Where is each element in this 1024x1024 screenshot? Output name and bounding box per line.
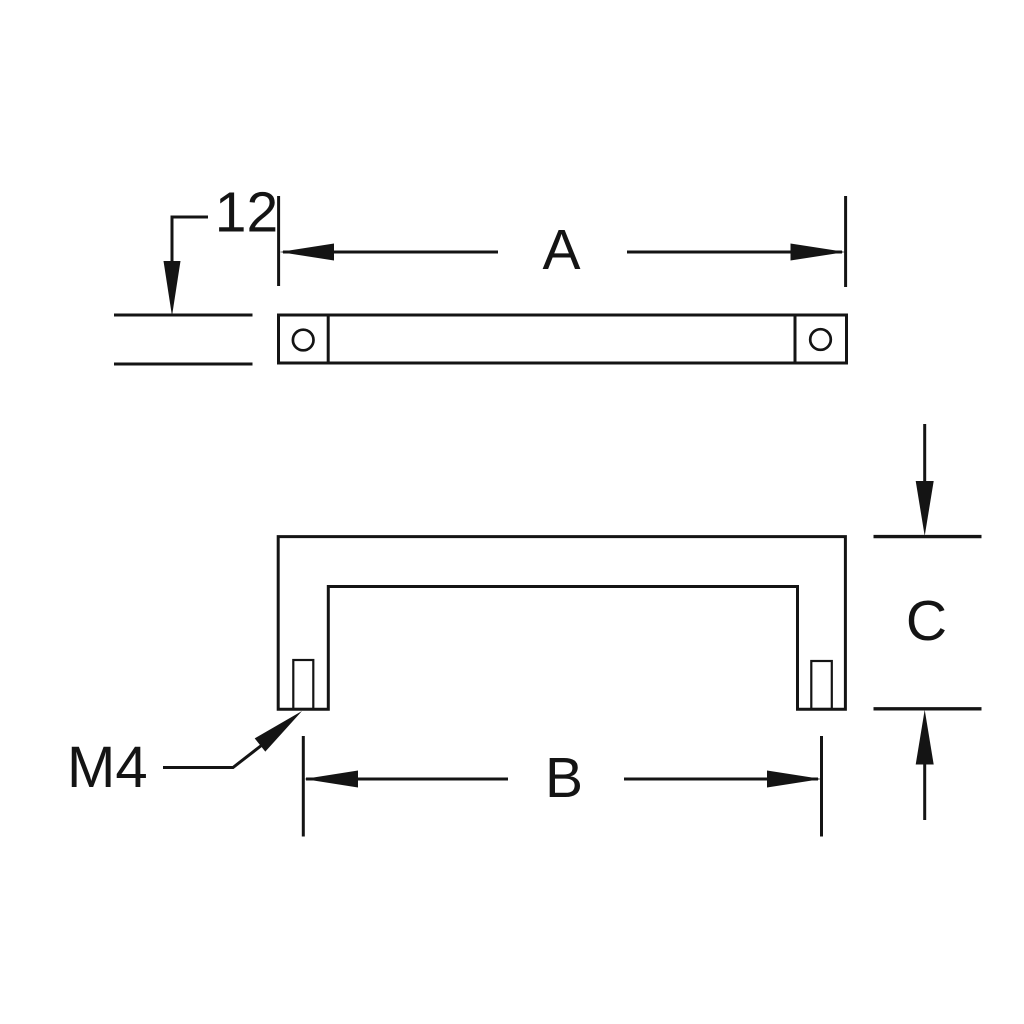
dimension line A right segment <box>627 251 842 254</box>
extension line right (B) <box>820 736 823 837</box>
C lower tick line <box>874 707 982 710</box>
svg-text:C: C <box>906 589 947 653</box>
C lower arrow lead line <box>923 764 926 820</box>
left end cap divider <box>327 315 330 363</box>
right end cap divider <box>794 315 797 363</box>
leader line from M4 label <box>163 745 262 768</box>
extension line left (A) <box>277 196 280 286</box>
panel break line upper (top view left) <box>114 314 253 317</box>
left screw boss M4 <box>293 660 313 709</box>
svg-text:M4: M4 <box>67 735 148 800</box>
C lower arrowhead pointing up <box>916 710 934 765</box>
dimension line B left segment <box>306 778 508 781</box>
svg-text:B: B <box>545 746 583 810</box>
left mounting hole <box>293 330 314 351</box>
svg-text:12: 12 <box>215 181 278 245</box>
svg-text:A: A <box>542 218 580 282</box>
handle bar outline (top view) <box>279 315 847 363</box>
panel break line lower (top view left) <box>114 363 253 366</box>
leader arrowhead pointing to left screw boss <box>255 711 302 752</box>
handle outline (front view) <box>278 537 845 710</box>
dimension line A left segment <box>283 251 498 254</box>
leader arrowhead pointing down to panel line <box>164 261 181 316</box>
right mounting hole <box>810 329 831 350</box>
right screw boss M4 <box>811 661 832 709</box>
leader line for 12 dimension <box>172 217 208 268</box>
extension line left (B) <box>302 736 305 837</box>
dimension arrowhead A left <box>280 244 335 261</box>
C upper arrow lead line <box>923 424 926 482</box>
extension line right (A) <box>844 196 847 287</box>
C upper arrowhead pointing down <box>916 481 934 536</box>
C upper tick line <box>874 535 982 538</box>
dimension arrowhead B right <box>767 771 822 788</box>
dimension line B right segment <box>624 778 818 781</box>
dimension arrowhead B left <box>304 771 358 788</box>
dimension arrowhead A right <box>791 244 846 261</box>
